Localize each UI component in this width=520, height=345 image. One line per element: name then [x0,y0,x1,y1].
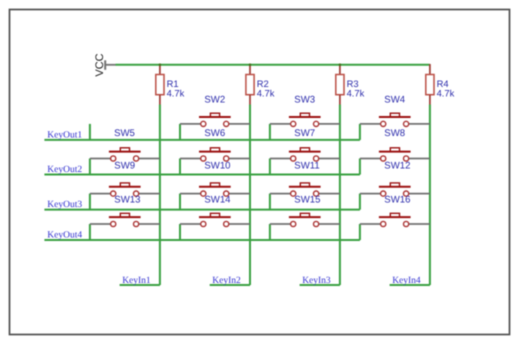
power port VCC lead [105,64,115,66]
switch row4 col4 (no designator shown) [360,213,430,226]
svg-text:SW14: SW14 [204,195,231,206]
svg-text:KeyIn4: KeyIn4 [392,276,421,286]
switch SW13 [90,183,160,196]
switch SW7 [270,113,340,126]
svg-text:SW15: SW15 [294,195,320,206]
svg-text:SW2: SW2 [204,95,225,106]
wire KeyIn2 stub [210,284,250,286]
svg-text:KeyIn2: KeyIn2 [212,276,241,286]
wire drop row3 col1 [89,194,91,210]
junction on VCC rail at R3 [339,63,342,66]
svg-text:SW11: SW11 [294,161,319,172]
wire KeyIn1 stub [120,284,160,286]
svg-text:4.7k: 4.7k [167,88,185,99]
wire drop row1 col1 [89,124,91,140]
wire KeyIn4 stub [390,284,430,286]
wire KeyIn2 column [249,105,251,286]
wire drop row2 col1 [89,159,91,175]
svg-text:4.7k: 4.7k [347,88,365,99]
svg-text:SW5: SW5 [114,128,135,139]
svg-text:KeyOut1: KeyOut1 [47,130,82,140]
svg-text:4.7k: 4.7k [257,88,275,99]
switch SW14 [180,183,250,196]
wire KeyOut3 row [44,209,360,211]
power port VCC bar [104,60,106,70]
wire KeyIn1 column [159,105,161,286]
wire KeyOut4 row [44,239,360,241]
switch SW11 [270,148,340,161]
wire KeyOut1 row [44,139,360,141]
svg-text:SW12: SW12 [384,161,410,172]
svg-text:4.7k: 4.7k [437,88,455,99]
wire VCC rail [116,64,430,66]
svg-text:SW6: SW6 [204,128,225,139]
switch SW9 [90,148,160,161]
svg-text:KeyOut2: KeyOut2 [47,165,82,175]
wire KeyIn3 column [339,105,341,286]
wire drop row4 col2 [179,224,181,240]
switch SW6 [180,113,250,126]
junction on VCC rail at R2 [249,63,252,66]
svg-text:SW9: SW9 [114,161,135,172]
wire drop row2 col4 [359,159,361,175]
switch SW15 [270,183,340,196]
svg-text:SW8: SW8 [384,128,405,139]
resistor R1 [156,64,164,105]
wire drop row3 col4 [359,194,361,210]
wire drop row2 col3 [269,159,271,175]
resistor R2 [246,64,254,105]
svg-text:SW16: SW16 [384,195,410,206]
svg-text:KeyOut3: KeyOut3 [47,200,82,210]
svg-text:KeyOut4: KeyOut4 [47,231,82,241]
svg-text:SW10: SW10 [204,161,230,172]
wire KeyIn3 stub [300,284,340,286]
wire drop row4 col4 [359,224,361,240]
switch SW12 [360,148,430,161]
svg-text:SW3: SW3 [294,95,315,106]
svg-text:KeyIn3: KeyIn3 [302,276,331,286]
switch SW8 [360,113,430,126]
switch row4 col2 (no designator shown) [180,213,250,226]
svg-text:VCC: VCC [94,53,106,76]
wire drop row1 col2 [179,124,181,140]
switch SW16 [360,183,430,196]
resistor R4 [426,64,434,105]
switch row4 col1 (no designator shown) [90,213,160,226]
svg-text:SW4: SW4 [384,95,405,106]
junction on VCC rail at R1 [159,63,162,66]
svg-text:SW7: SW7 [294,128,315,139]
svg-text:SW13: SW13 [114,195,140,206]
svg-text:KeyIn1: KeyIn1 [122,276,151,286]
wire drop row2 col2 [179,159,181,175]
wire KeyOut2 row [44,174,360,176]
wire drop row3 col2 [179,194,181,210]
wire drop row1 col3 [269,124,271,140]
resistor R3 [336,64,344,105]
switch SW10 [180,148,250,161]
wire drop row4 col1 [89,224,91,240]
switch row4 col3 (no designator shown) [270,213,340,226]
wire KeyIn4 column [429,105,431,286]
wire drop row4 col3 [269,224,271,240]
wire drop row3 col3 [269,194,271,210]
wire drop row1 col4 [359,124,361,140]
